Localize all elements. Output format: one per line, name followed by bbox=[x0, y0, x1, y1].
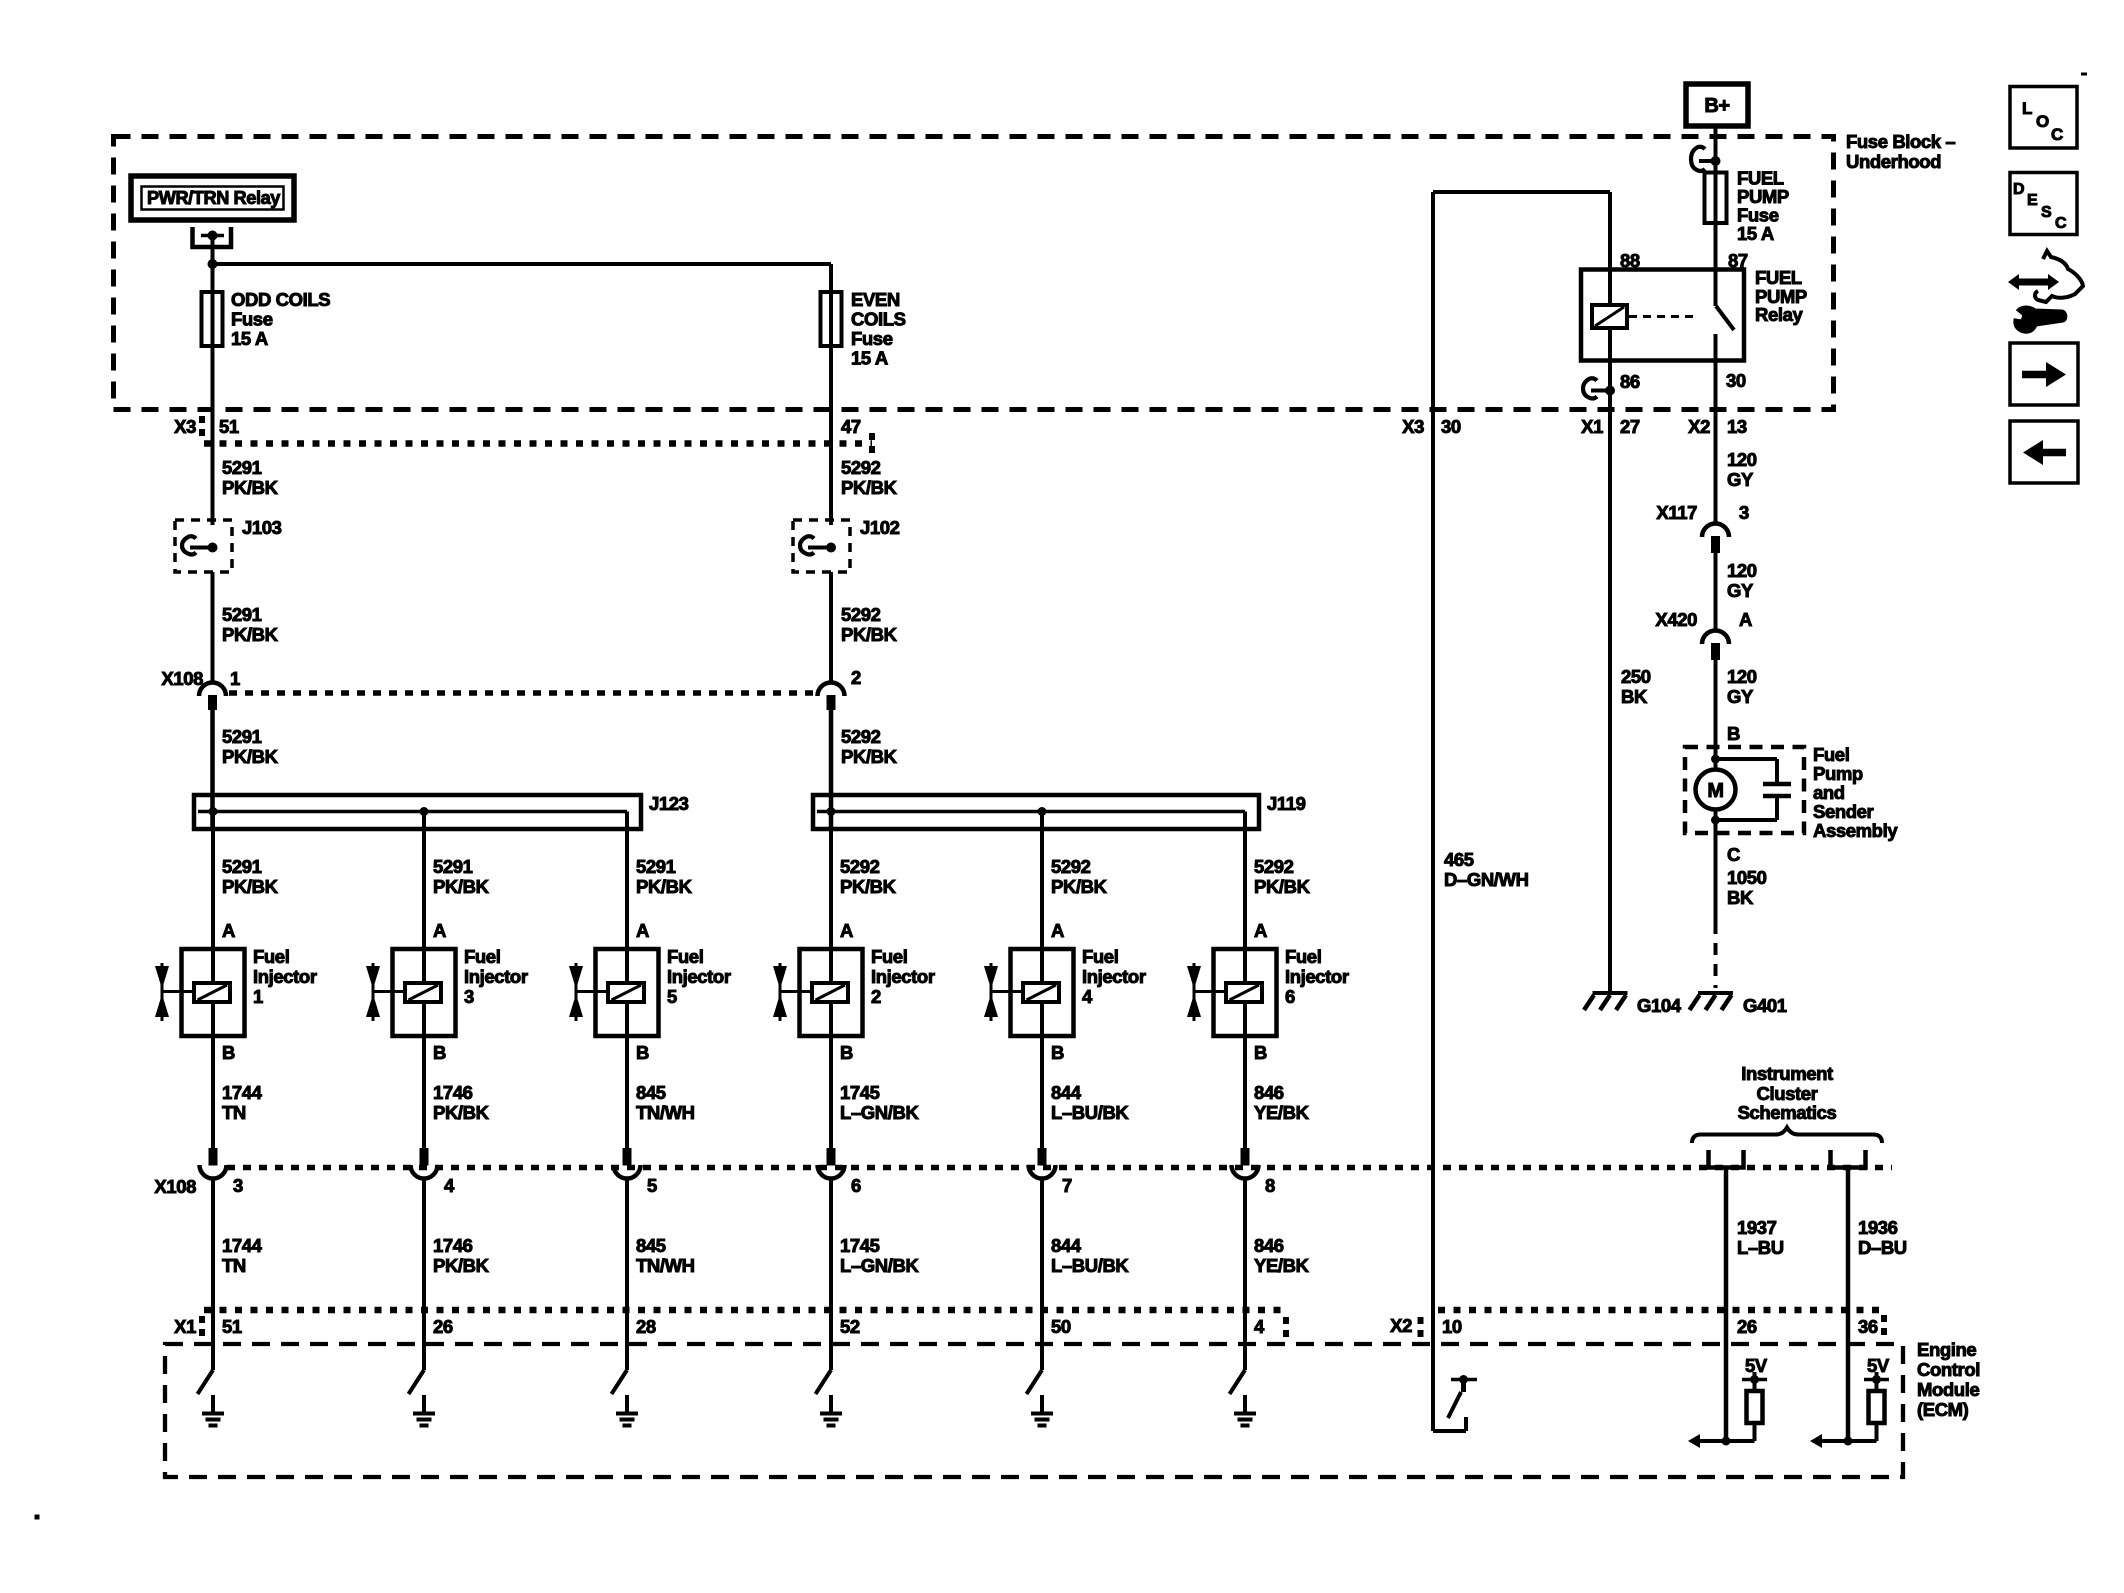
svg-text:2: 2 bbox=[871, 986, 881, 1007]
svg-text:Fuel: Fuel bbox=[871, 946, 907, 967]
wire 845 TN/WH (injector 5 pin B to X108-5) bbox=[627, 1036, 695, 1150]
svg-text:Module: Module bbox=[1917, 1379, 1979, 1400]
svg-text:1745: 1745 bbox=[840, 1235, 880, 1256]
wire 5291 PK/BK (bus to fuel injector 5 pin A) bbox=[627, 812, 693, 950]
svg-text:2: 2 bbox=[851, 667, 861, 688]
connector X1 row bbox=[174, 1310, 1286, 1342]
svg-text:5291: 5291 bbox=[433, 856, 473, 877]
wire 5291 PK/BK (X3-51 to J103) bbox=[222, 457, 279, 498]
svg-text:3: 3 bbox=[464, 986, 474, 1007]
svg-text:PK/BK: PK/BK bbox=[222, 746, 279, 767]
instrument cluster pin (right cup) bbox=[1831, 1150, 1866, 1168]
svg-text:L–BU/BK: L–BU/BK bbox=[1051, 1255, 1129, 1276]
node pin B of injector 6 bbox=[1254, 1042, 1267, 1063]
svg-text:B+: B+ bbox=[1704, 95, 1729, 117]
X108 label (bottom row) bbox=[154, 1176, 196, 1197]
svg-text:X108: X108 bbox=[154, 1176, 196, 1197]
wire 5292 PK/BK (bus to fuel injector 6 pin A) bbox=[1245, 812, 1311, 950]
svg-text:15 A: 15 A bbox=[1737, 223, 1774, 244]
svg-text:15 A: 15 A bbox=[851, 348, 888, 369]
svg-text:FUEL: FUEL bbox=[1755, 267, 1802, 288]
svg-text:J102: J102 bbox=[860, 517, 900, 538]
icon box DESC bbox=[2010, 173, 2077, 235]
connector X108 pin 6 bbox=[818, 1148, 862, 1196]
svg-text:PK/BK: PK/BK bbox=[840, 876, 897, 897]
wire to X108 pin 1 bbox=[211, 572, 215, 682]
svg-text:TN: TN bbox=[222, 1102, 246, 1123]
5V supply bar node (pin 36) bbox=[1864, 1372, 1889, 1384]
svg-text:1744: 1744 bbox=[222, 1082, 263, 1103]
wire down to relay pin 88 bbox=[1608, 192, 1612, 305]
connector X108 pin 7 bbox=[1029, 1148, 1073, 1196]
svg-text:4: 4 bbox=[1254, 1316, 1265, 1337]
svg-text:3: 3 bbox=[233, 1175, 243, 1196]
svg-text:A: A bbox=[840, 920, 853, 941]
svg-text:5291: 5291 bbox=[222, 726, 262, 747]
node pin B of injector 3 bbox=[433, 1042, 446, 1063]
svg-text:TN: TN bbox=[222, 1255, 246, 1276]
wire 846 YE/BK (injector 6 pin B to X108-8) bbox=[1245, 1036, 1310, 1150]
svg-text:Injector: Injector bbox=[1285, 966, 1349, 987]
svg-text:30: 30 bbox=[1441, 416, 1461, 437]
stray mark top right bbox=[2081, 73, 2087, 76]
wire B+ to fuel pump fuse bbox=[1714, 126, 1718, 173]
svg-text:BK: BK bbox=[1727, 887, 1754, 908]
fuse block label bbox=[1846, 131, 1955, 172]
svg-text:1050: 1050 bbox=[1727, 867, 1767, 888]
wire to X108 pin 2 bbox=[829, 572, 833, 682]
svg-text:Relay: Relay bbox=[1755, 304, 1803, 325]
svg-text:846: 846 bbox=[1254, 1235, 1284, 1256]
svg-text:844: 844 bbox=[1051, 1235, 1082, 1256]
svg-text:5292: 5292 bbox=[841, 726, 881, 747]
svg-text:J123: J123 bbox=[649, 793, 689, 814]
ECM driver switch for injector 2 bbox=[816, 1370, 832, 1394]
svg-text:PK/BK: PK/BK bbox=[841, 746, 898, 767]
wire motor stubs bbox=[1714, 759, 1718, 833]
wire 120 GY segment 2 bbox=[1716, 553, 1757, 629]
svg-text:Fuel: Fuel bbox=[1082, 946, 1118, 967]
wire 5291 PK/BK (bus to fuel injector 3 pin A) bbox=[424, 812, 490, 950]
instrument cluster pin (left cup) bbox=[1709, 1150, 1744, 1168]
resistor pullup (pin 26) bbox=[1726, 1380, 1763, 1442]
svg-text:D: D bbox=[2013, 181, 2024, 198]
svg-text:Injector: Injector bbox=[871, 966, 935, 987]
wire relay 86 down (250 BK) to G104 bbox=[1608, 361, 1612, 992]
svg-text:36: 36 bbox=[1858, 1316, 1878, 1337]
icon box LOC bbox=[2010, 87, 2077, 149]
ground (ECM internal) for injector 4 bbox=[1031, 1395, 1053, 1426]
svg-text:PK/BK: PK/BK bbox=[841, 624, 898, 645]
node pin A of injector 2 bbox=[840, 920, 853, 941]
ground (ECM internal) for injector 3 bbox=[413, 1395, 435, 1426]
svg-text:Injector: Injector bbox=[1082, 966, 1146, 987]
svg-text:50: 50 bbox=[1051, 1316, 1071, 1337]
svg-text:Fuse Block –: Fuse Block – bbox=[1846, 131, 1955, 152]
fuel injector 2 bbox=[773, 946, 935, 1036]
ECM X1 pin 52 bbox=[840, 1316, 860, 1337]
connector pin labels X3-30 / X1-27 / X2-13 bbox=[1402, 416, 1747, 437]
svg-text:L–BU: L–BU bbox=[1737, 1237, 1784, 1258]
svg-text:120: 120 bbox=[1727, 449, 1757, 470]
ground (ECM internal) for injector 1 bbox=[202, 1395, 224, 1426]
svg-text:X2: X2 bbox=[1688, 416, 1710, 437]
svg-text:1744: 1744 bbox=[222, 1235, 263, 1256]
svg-text:TN/WH: TN/WH bbox=[636, 1255, 695, 1276]
svg-text:J103: J103 bbox=[242, 517, 282, 538]
wire EVEN fuse to X3 pin 47 bbox=[829, 346, 833, 525]
node pin B of injector 4 bbox=[1051, 1042, 1064, 1063]
svg-text:X3: X3 bbox=[174, 416, 196, 437]
svg-text:C: C bbox=[1727, 844, 1740, 865]
svg-text:PK/BK: PK/BK bbox=[222, 876, 279, 897]
node pin B of injector 1 bbox=[222, 1042, 235, 1063]
svg-text:5292: 5292 bbox=[1051, 856, 1091, 877]
node pin 86 bbox=[1620, 371, 1640, 392]
svg-text:Schematics: Schematics bbox=[1738, 1102, 1837, 1123]
svg-text:J119: J119 bbox=[1267, 793, 1306, 814]
icon box forward arrow bbox=[2010, 343, 2078, 405]
svg-text:Fuse: Fuse bbox=[231, 309, 273, 330]
svg-text:X117: X117 bbox=[1656, 502, 1697, 523]
ECM X1 pin 50 bbox=[1051, 1316, 1071, 1337]
PWR/TRN Relay labeled box bbox=[131, 176, 294, 220]
connector X108 pin 2 bbox=[818, 667, 862, 710]
svg-text:GY: GY bbox=[1727, 469, 1754, 490]
ECM X2 pin 36 bbox=[1858, 1316, 1878, 1337]
ECM label bbox=[1917, 1339, 1980, 1420]
ground (ECM internal) for injector 6 bbox=[1234, 1395, 1256, 1426]
svg-text:5291: 5291 bbox=[222, 604, 262, 625]
svg-text:O: O bbox=[2036, 112, 2049, 131]
svg-text:COILS: COILS bbox=[851, 309, 906, 330]
splice bus J119 bbox=[813, 793, 1306, 829]
ECM driver switch for injector 4 bbox=[1027, 1370, 1043, 1394]
node pin A of injector 1 bbox=[222, 920, 235, 941]
wire 120 GY segment 3 bbox=[1716, 660, 1757, 759]
svg-text:PK/BK: PK/BK bbox=[636, 876, 693, 897]
svg-text:5292: 5292 bbox=[840, 856, 880, 877]
svg-text:86: 86 bbox=[1620, 371, 1640, 392]
svg-text:5292: 5292 bbox=[841, 604, 881, 625]
svg-text:Fuse: Fuse bbox=[851, 328, 893, 349]
node pin A of injector 4 bbox=[1051, 920, 1064, 941]
svg-text:G401: G401 bbox=[1743, 995, 1787, 1016]
connector X108 pin 3 bbox=[200, 1148, 244, 1196]
wire 465 D-GN/WH label bbox=[1444, 849, 1529, 890]
svg-text:30: 30 bbox=[1726, 370, 1746, 391]
wire 1050 BK bbox=[1716, 833, 1767, 922]
svg-text:YE/BK: YE/BK bbox=[1254, 1102, 1310, 1123]
svg-text:B: B bbox=[1051, 1042, 1064, 1063]
svg-text:PK/BK: PK/BK bbox=[222, 477, 279, 498]
wire 250 BK label bbox=[1621, 666, 1651, 707]
wire 845 TN/WH (X108-5 to ECM X1-28) bbox=[627, 1179, 695, 1371]
svg-text:TN/WH: TN/WH bbox=[636, 1102, 695, 1123]
ECM X1 pin 4 bbox=[1254, 1316, 1265, 1337]
connector X117 pin 3 bbox=[1656, 502, 1749, 553]
wire 1744 TN (X108-3 to ECM X1-51) bbox=[213, 1179, 263, 1371]
svg-text:Engine: Engine bbox=[1917, 1339, 1976, 1360]
svg-text:L: L bbox=[2022, 99, 2032, 118]
wire 5291 PK/BK (J103 to X108-1) bbox=[222, 604, 279, 645]
svg-text:GY: GY bbox=[1727, 686, 1754, 707]
connector X108 pin 1 bbox=[161, 668, 240, 710]
Fuel Pump and Sender Assembly (dashed box) bbox=[1685, 744, 1898, 841]
svg-text:Fuel: Fuel bbox=[667, 946, 703, 967]
svg-text:PK/BK: PK/BK bbox=[841, 477, 898, 498]
svg-text:PK/BK: PK/BK bbox=[1254, 876, 1311, 897]
wire relay coil feed (top link from X3-30 riser) bbox=[1433, 190, 1610, 194]
connector X108 pin 5 bbox=[614, 1148, 658, 1196]
svg-text:120: 120 bbox=[1727, 560, 1757, 581]
svg-text:PK/BK: PK/BK bbox=[222, 624, 279, 645]
fuse EVEN COILS 15 A bbox=[821, 289, 906, 369]
svg-text:1746: 1746 bbox=[433, 1235, 473, 1256]
svg-text:15 A: 15 A bbox=[231, 328, 268, 349]
svg-text:13: 13 bbox=[1727, 416, 1747, 437]
svg-text:10: 10 bbox=[1442, 1316, 1462, 1337]
stray mark bottom left bbox=[35, 1515, 39, 1519]
svg-text:PK/BK: PK/BK bbox=[1051, 876, 1108, 897]
svg-text:A: A bbox=[1051, 920, 1064, 941]
svg-text:X1: X1 bbox=[1581, 416, 1603, 437]
motor M (fuel pump) bbox=[1696, 770, 1736, 810]
ECM X1 pin 28 bbox=[636, 1316, 656, 1337]
node junction with signal wire (pin 26) bbox=[1722, 1437, 1731, 1446]
svg-text:B: B bbox=[636, 1042, 649, 1063]
Engine Control Module (ECM) dashed box bbox=[165, 1344, 1903, 1477]
ECM driver switch for injector 3 bbox=[409, 1370, 425, 1394]
X108 harness dotted line bbox=[229, 690, 816, 696]
svg-text:X2: X2 bbox=[1390, 1315, 1412, 1336]
wire 5291 PK/BK (bus to fuel injector 1 pin A) bbox=[213, 812, 279, 950]
svg-text:Instrument: Instrument bbox=[1741, 1063, 1833, 1084]
svg-text:D–BU: D–BU bbox=[1858, 1237, 1907, 1258]
svg-text:845: 845 bbox=[636, 1082, 666, 1103]
fuse block terminal for B+ feed (hook) bbox=[1691, 147, 1721, 171]
wire 1745 L–GN/BK (injector 2 pin B to X108-6) bbox=[831, 1036, 919, 1150]
svg-text:D–GN/WH: D–GN/WH bbox=[1444, 869, 1529, 890]
relay FUEL PUMP bbox=[1581, 267, 1807, 361]
ECM driver switch for injector 1 bbox=[198, 1370, 214, 1394]
svg-text:5292: 5292 bbox=[1254, 856, 1294, 877]
wire 465 riser (X3-30) bbox=[1431, 192, 1435, 1431]
svg-text:3: 3 bbox=[1739, 502, 1749, 523]
node pin B of injector 5 bbox=[636, 1042, 649, 1063]
ground G401 bbox=[1690, 993, 1787, 1016]
wire 844 L–BU/BK (injector 4 pin B to X108-7) bbox=[1042, 1036, 1129, 1150]
svg-text:844: 844 bbox=[1051, 1082, 1082, 1103]
svg-text:250: 250 bbox=[1621, 666, 1651, 687]
wire 5292 PK/BK (J102 to X108-2) bbox=[841, 604, 898, 645]
icon box back arrow bbox=[2010, 421, 2078, 483]
splice J103 bbox=[175, 517, 282, 572]
ECM X2 pin 26 bbox=[1737, 1316, 1757, 1337]
svg-text:Assembly: Assembly bbox=[1813, 820, 1898, 841]
fuel injector 4 bbox=[984, 946, 1146, 1036]
svg-text:B: B bbox=[1727, 723, 1740, 744]
svg-text:E: E bbox=[2027, 192, 2038, 209]
svg-text:Injector: Injector bbox=[667, 966, 731, 987]
fuel injector 1 bbox=[155, 946, 317, 1036]
connector X108 pin 8 bbox=[1232, 1148, 1276, 1196]
svg-text:EVEN: EVEN bbox=[851, 289, 900, 310]
svg-text:Underhood: Underhood bbox=[1846, 151, 1941, 172]
svg-text:845: 845 bbox=[636, 1235, 666, 1256]
svg-text:A: A bbox=[636, 920, 649, 941]
svg-text:L–GN/BK: L–GN/BK bbox=[840, 1255, 919, 1276]
svg-text:Fuel: Fuel bbox=[253, 946, 289, 967]
svg-text:120: 120 bbox=[1727, 666, 1757, 687]
wire relay 30 down to X2-13 bbox=[1714, 361, 1718, 524]
svg-text:YE/BK: YE/BK bbox=[1254, 1255, 1310, 1276]
svg-text:Injector: Injector bbox=[253, 966, 317, 987]
wire 1936 D-BU bbox=[1848, 1168, 1907, 1442]
svg-text:(ECM): (ECM) bbox=[1917, 1399, 1969, 1420]
svg-text:6: 6 bbox=[1285, 986, 1295, 1007]
fuse block - underhood (dashed enclosure) bbox=[114, 137, 1834, 410]
svg-text:4: 4 bbox=[444, 1175, 455, 1196]
fuel injector 3 bbox=[366, 946, 528, 1036]
arrow to comparator (pin 26) bbox=[1688, 1434, 1726, 1448]
connector X108 pin 4 bbox=[411, 1148, 456, 1196]
fuse block terminal at relay 86 (hook) bbox=[1583, 378, 1615, 398]
wire 1746 PK/BK (injector 3 pin B to X108-4) bbox=[424, 1036, 490, 1150]
ECM driver switch for injector 5 bbox=[612, 1370, 628, 1394]
fuse FUEL PUMP 15 A bbox=[1705, 168, 1789, 245]
5V supply bar node (pin 26) bbox=[1742, 1372, 1767, 1384]
svg-text:B: B bbox=[840, 1042, 853, 1063]
svg-text:Control: Control bbox=[1917, 1359, 1980, 1380]
fuse ODD COILS 15 A bbox=[202, 289, 331, 349]
arrow to comparator (pin 36) bbox=[1810, 1434, 1848, 1448]
svg-text:A: A bbox=[1739, 609, 1752, 630]
connector X2 row bbox=[1390, 1310, 1884, 1341]
svg-text:and: and bbox=[1813, 782, 1845, 803]
svg-text:B: B bbox=[433, 1042, 446, 1063]
svg-text:5292: 5292 bbox=[841, 457, 881, 478]
ECM input switch X2-10 bbox=[1433, 1375, 1477, 1431]
svg-text:51: 51 bbox=[219, 416, 239, 437]
svg-text:6: 6 bbox=[851, 1175, 861, 1196]
svg-text:Fuel: Fuel bbox=[1813, 744, 1849, 765]
svg-text:C: C bbox=[2055, 215, 2067, 232]
wire 5292 PK/BK (X108-2 to J119) bbox=[831, 710, 898, 795]
svg-text:A: A bbox=[222, 920, 235, 941]
ECM X1 pin 51 bbox=[222, 1316, 242, 1337]
wire 1937 L-BU bbox=[1726, 1168, 1784, 1442]
wire down to ODD COILS fuse bbox=[211, 264, 215, 292]
svg-text:1745: 1745 bbox=[840, 1082, 880, 1103]
capacitor (noise suppressor) bbox=[1716, 759, 1792, 820]
svg-text:L–BU/BK: L–BU/BK bbox=[1051, 1102, 1129, 1123]
svg-text:Pump: Pump bbox=[1813, 763, 1863, 784]
wire from PWR/TRN relay pin down to node bbox=[211, 236, 215, 265]
ground G104 bbox=[1584, 993, 1682, 1016]
connector X3 row (pins 51 / 47) bbox=[174, 416, 872, 456]
node: pump motor bottom junction bbox=[1711, 816, 1720, 825]
splice J102 bbox=[793, 517, 900, 572]
node: junction of ODD/EVEN feed bbox=[208, 259, 218, 269]
svg-text:A: A bbox=[1254, 920, 1267, 941]
svg-text:47: 47 bbox=[841, 416, 861, 437]
svg-text:5291: 5291 bbox=[222, 457, 262, 478]
wire 1745 L–GN/BK (X108-6 to ECM X1-52) bbox=[831, 1179, 919, 1371]
node pin 88 bbox=[1620, 250, 1640, 271]
svg-text:GY: GY bbox=[1727, 580, 1754, 601]
brace bbox=[1692, 1128, 1882, 1144]
svg-text:1: 1 bbox=[253, 986, 263, 1007]
svg-text:5: 5 bbox=[647, 1175, 657, 1196]
fuel injector 5 bbox=[569, 946, 731, 1036]
svg-text:PK/BK: PK/BK bbox=[433, 876, 490, 897]
svg-text:X108: X108 bbox=[161, 668, 203, 689]
wire 1050 BK dashed continuation bbox=[1714, 922, 1718, 988]
svg-text:4: 4 bbox=[1082, 986, 1093, 1007]
ground (ECM internal) for injector 2 bbox=[820, 1395, 842, 1426]
5V reference label (pin 26) bbox=[1745, 1355, 1768, 1376]
svg-text:M: M bbox=[1707, 780, 1723, 802]
svg-text:Fuel: Fuel bbox=[1285, 946, 1321, 967]
node pin B of pump assembly bbox=[1727, 723, 1740, 744]
svg-text:Sender: Sender bbox=[1813, 801, 1874, 822]
svg-text:Cluster: Cluster bbox=[1757, 1083, 1818, 1104]
svg-text:S: S bbox=[2041, 204, 2052, 221]
svg-text:1936: 1936 bbox=[1858, 1217, 1898, 1238]
fuel injector 6 bbox=[1187, 946, 1349, 1036]
wire 5291 PK/BK (X108-1 to J123) bbox=[213, 710, 279, 795]
svg-text:B: B bbox=[1254, 1042, 1267, 1063]
svg-text:26: 26 bbox=[433, 1316, 453, 1337]
PWR/TRN relay output pin (cup terminal with dot) bbox=[193, 227, 232, 247]
svg-text:Injector: Injector bbox=[464, 966, 528, 987]
svg-text:B: B bbox=[222, 1042, 235, 1063]
wire ODD fuse to X3 pin 51 bbox=[211, 346, 215, 525]
svg-text:52: 52 bbox=[840, 1316, 860, 1337]
5V reference label (pin 36) bbox=[1867, 1355, 1890, 1376]
svg-text:L–GN/BK: L–GN/BK bbox=[840, 1102, 919, 1123]
svg-text:PK/BK: PK/BK bbox=[433, 1255, 490, 1276]
svg-text:Fuel: Fuel bbox=[464, 946, 500, 967]
svg-text:1937: 1937 bbox=[1737, 1217, 1777, 1238]
node pin A of injector 6 bbox=[1254, 920, 1267, 941]
svg-text:7: 7 bbox=[1062, 1175, 1072, 1196]
node pin A of injector 5 bbox=[636, 920, 649, 941]
connector X420 pin A bbox=[1655, 609, 1752, 660]
svg-text:28: 28 bbox=[636, 1316, 656, 1337]
svg-text:465: 465 bbox=[1444, 849, 1474, 870]
svg-text:X1: X1 bbox=[174, 1316, 196, 1337]
wire 5292 PK/BK (X3-47 to J102) bbox=[841, 457, 898, 498]
svg-text:C: C bbox=[2051, 125, 2063, 144]
svg-text:X3: X3 bbox=[1402, 416, 1424, 437]
wire 846 YE/BK (X108-8 to ECM X1-4) bbox=[1245, 1179, 1310, 1371]
wire down to EVEN COILS fuse bbox=[829, 264, 833, 292]
wire 5292 PK/BK (bus to fuel injector 4 pin A) bbox=[1042, 812, 1108, 950]
svg-text:BK: BK bbox=[1621, 686, 1648, 707]
node pin A of injector 3 bbox=[433, 920, 446, 941]
svg-text:ODD COILS: ODD COILS bbox=[231, 289, 330, 310]
icon: car with arrows and wrench bbox=[2008, 251, 2083, 332]
svg-text:1: 1 bbox=[230, 668, 240, 689]
wire 1744 TN (injector 1 pin B to X108-3) bbox=[213, 1036, 263, 1150]
ground (ECM internal) for injector 5 bbox=[616, 1395, 638, 1426]
svg-text:51: 51 bbox=[222, 1316, 242, 1337]
node pin 30 bbox=[1726, 370, 1746, 391]
svg-text:X420: X420 bbox=[1655, 609, 1697, 630]
wire: horizontal feed to EVEN COILS fuse bbox=[213, 262, 832, 266]
